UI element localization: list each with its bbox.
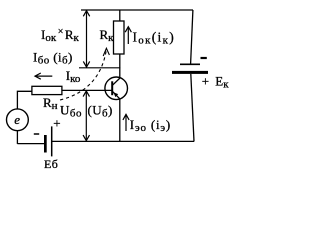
battery Ек negative plate (thin short bar) bbox=[180, 63, 200, 65]
svg-text:Iэо (iэ): Iэо (iэ) bbox=[130, 117, 171, 134]
emitter wire from transistor down to bottom rail bbox=[119, 99, 121, 141]
resistor Rн body bbox=[32, 86, 62, 94]
signal source circle e bbox=[7, 109, 29, 131]
transistor VT circle bbox=[105, 77, 128, 100]
right collector-supply wire (top segment) bbox=[191, 10, 193, 64]
battery Еб negative plate (thick short bar) bbox=[44, 135, 47, 153]
svg-text:Rк: Rк bbox=[100, 27, 115, 44]
transistor base bar bbox=[111, 81, 113, 95]
current arrow Iок(iк) (points up, beside Rк) bbox=[125, 27, 131, 44]
battery Еб positive plate (thin long bar) bbox=[51, 126, 53, 156]
transistor emitter slant with arrow to base (PNP) bbox=[113, 91, 120, 99]
svg-text:Uбо: Uбо bbox=[60, 103, 82, 120]
resistor Rк body bbox=[114, 21, 125, 54]
voltage arrow Iок×Rк (double-headed, top rail to collector node) bbox=[83, 11, 89, 67]
transistor collector slant bbox=[113, 78, 121, 85]
voltage arrow Uбо (double-headed, base wire to bottom rail) bbox=[83, 91, 89, 141]
svg-text:Iок×Rк: Iок×Rк bbox=[41, 27, 80, 45]
base wire from Rн to transistor base bbox=[62, 89, 112, 91]
emitter current arrow (points up) bbox=[123, 114, 129, 131]
svg-text:Iок(iк): Iок(iк) bbox=[133, 30, 176, 47]
minus label of Еб bbox=[34, 133, 39, 135]
bottom rail wire (left of battery Еб) bbox=[17, 143, 44, 145]
wire from source top up and right to resistor Rн bbox=[17, 91, 32, 109]
collector node reference line bbox=[79, 67, 120, 69]
svg-text:+: + bbox=[202, 74, 209, 89]
battery Ек positive plate (thick long bar) bbox=[172, 71, 208, 74]
right wire (bottom segment from Ек to bottom rail) bbox=[191, 74, 194, 141]
top supply rail wire bbox=[81, 9, 193, 11]
wire from top rail to Rк bbox=[119, 10, 121, 21]
wire from source bottom to bottom-left rail bbox=[16, 131, 18, 144]
svg-text:Iко: Iко bbox=[66, 68, 81, 85]
collector wire from Rк down to transistor bbox=[119, 54, 121, 78]
svg-text:Rн: Rн bbox=[43, 95, 58, 112]
base current arrow (points left) bbox=[35, 73, 52, 79]
svg-text:+: + bbox=[53, 115, 60, 130]
svg-text:e: e bbox=[14, 112, 20, 127]
svg-text:Iбо (iб): Iбо (iб) bbox=[33, 50, 73, 67]
bottom rail wire (right of battery Еб) bbox=[52, 140, 195, 142]
svg-text:Ек: Ек bbox=[215, 74, 229, 91]
dashed reverse-current path Iко with up arrowhead bbox=[60, 48, 109, 100]
minus label of Ек bbox=[201, 57, 207, 59]
svg-text:Еб: Еб bbox=[44, 157, 58, 171]
svg-text:(Uб): (Uб) bbox=[88, 103, 113, 120]
